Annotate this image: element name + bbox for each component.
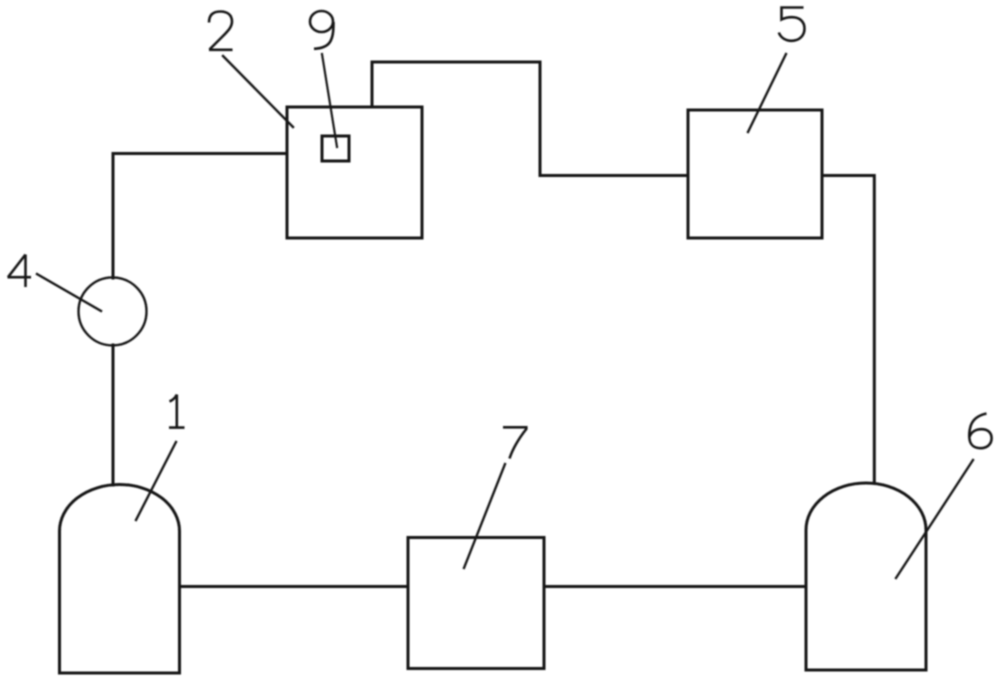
circle 4 (component 4) [79,277,147,345]
sensor square 9 inside box 2 [322,136,349,161]
box 7 (component 7) [408,538,544,669]
tank 6 (dome-topped vessel, component 6) [806,483,926,670]
box 2 (component 2) [287,107,422,238]
label 5 [779,8,805,41]
wire: box5 right to tank6 top [822,176,874,484]
label 1 [169,395,185,428]
leader line to component 1 [136,442,176,520]
label 9 [310,11,333,32]
label 7 [503,427,526,458]
tank 1 (dome-topped vessel, component 1) [60,484,180,673]
label 2 [209,12,233,50]
label 6 [969,414,991,449]
leader line to sensor 9 [322,54,337,147]
box 5 (component 5) [688,110,822,238]
wire: box2 left to circle4 top [113,154,287,279]
wire: box7 right to tank6 left [544,585,806,588]
leader line to component 2 [223,56,293,127]
wire: tank1 right to box7 left [180,585,409,588]
leader line to component 4 [37,274,101,311]
wire: box2 top to box5 left [372,62,688,176]
label 4 [8,255,32,288]
leader line to component 5 [748,54,786,132]
leader line to component 6 [896,460,973,578]
leader line to component 7 [464,464,505,568]
wire: circle4 bottom to tank1 top [112,345,115,485]
